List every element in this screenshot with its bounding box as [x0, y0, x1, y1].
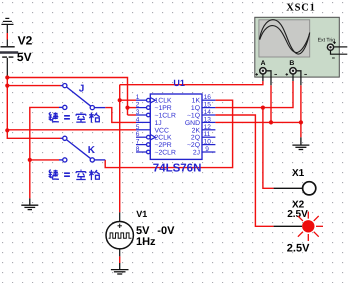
- pin 16 1K: [202, 99, 215, 101]
- svg-text:74LS76N: 74LS76N: [153, 163, 202, 175]
- svg-text:4: 4: [136, 116, 140, 123]
- svg-text:J: J: [79, 84, 85, 95]
- wire VCC: [7, 129, 136, 131]
- scope terminal A: [255, 68, 277, 86]
- clock source V1: [106, 212, 133, 256]
- ground (below V1): [111, 263, 129, 274]
- svg-text:2CLK: 2CLK: [155, 135, 172, 142]
- svg-text:2: 2: [136, 102, 140, 109]
- probe X2 lit: [298, 212, 323, 241]
- wire +5V to K top: [7, 131, 60, 139]
- svg-text:A: A: [261, 60, 266, 67]
- wire scope A minus down: [270, 85, 272, 122]
- wire J common to 1J: [105, 108, 136, 123]
- wire battery down: [6, 78, 8, 131]
- junction clock to 1CLK: [118, 98, 122, 102]
- svg-text:B: B: [289, 60, 294, 67]
- pin 10 ~2Q: [202, 144, 215, 146]
- svg-text:GND: GND: [185, 120, 200, 127]
- svg-text:X1: X1: [292, 168, 305, 179]
- scope sine curve 1: [259, 20, 309, 54]
- wire clock net vertical: [119, 85, 121, 213]
- junction B minus GND row: [299, 120, 303, 124]
- pin 3 ~1CLR: [136, 113, 150, 117]
- wire K common to 1K: [105, 100, 232, 167]
- pin 14 ~1Q: [202, 114, 215, 116]
- svg-text:~2Q: ~2Q: [187, 142, 200, 149]
- ground (top-left, above V2, flipped): [1, 18, 13, 33]
- wire clock to 1CLK: [120, 99, 136, 101]
- ground (below scope B minus): [292, 137, 309, 149]
- svg-text:~2PR: ~2PR: [155, 142, 172, 149]
- scope sine curve 2: [260, 26, 310, 53]
- svg-text:6: 6: [136, 131, 140, 138]
- pin labels right: [185, 98, 201, 157]
- svg-text:1Q: 1Q: [191, 105, 200, 112]
- svg-text:XSC1: XSC1: [286, 2, 315, 13]
- pin 13 GND: [202, 121, 215, 123]
- wire GND row pin13: [215, 121, 301, 123]
- probe X2 lead: [274, 225, 302, 227]
- svg-text:1: 1: [136, 94, 140, 101]
- label J key = space: [49, 112, 100, 123]
- wire +5V to ~1PR/~1CLR: [7, 78, 127, 116]
- wire ~1Q to X2: [215, 115, 273, 226]
- svg-text:15: 15: [204, 102, 212, 109]
- pin numbers right: [204, 94, 212, 153]
- label K key = space: [49, 170, 100, 181]
- pin 4 1J: [136, 121, 150, 123]
- svg-text:2K: 2K: [192, 127, 201, 134]
- svg-text:1J: 1J: [155, 120, 162, 127]
- switch J: [59, 84, 105, 110]
- junction battery VCC branch: [5, 128, 9, 132]
- pin 9 2J: [202, 151, 215, 153]
- ground (below switches): [21, 198, 38, 209]
- junction 1Q X1 branch: [261, 106, 265, 110]
- svg-text:1K: 1K: [192, 98, 201, 105]
- svg-text:16: 16: [204, 94, 212, 101]
- svg-text:9: 9: [205, 146, 209, 153]
- svg-text:~2CLR: ~2CLR: [155, 150, 176, 157]
- ext trig terminal: [327, 41, 347, 58]
- probe X1: [303, 182, 316, 195]
- svg-text:Ext Trig: Ext Trig: [318, 37, 336, 43]
- junction battery J branch: [5, 84, 9, 88]
- junction gnd K branch: [28, 158, 32, 162]
- svg-text:12: 12: [204, 124, 212, 131]
- pin 2 ~1PR: [136, 106, 150, 110]
- wire 1Q to X1: [263, 108, 274, 189]
- pin 11 2Q: [202, 136, 215, 138]
- wire battery top: [6, 33, 8, 40]
- pin 6 2CLK: [136, 135, 155, 140]
- wire clock to scope A: [120, 81, 263, 85]
- pin 12 2K: [202, 129, 215, 131]
- pin 7 ~2PR: [136, 143, 150, 147]
- wire +5V to J top: [7, 85, 60, 87]
- probe X1 lead: [274, 187, 303, 189]
- wire ~1CLR branch: [128, 114, 137, 116]
- svg-text:U1: U1: [173, 78, 185, 88]
- junction ~1PR: [125, 106, 129, 110]
- oscilloscope XSC1 body: [255, 17, 339, 77]
- wire K bottom: [30, 159, 59, 161]
- pin 15 1Q: [202, 107, 215, 109]
- svg-text:2.5V: 2.5V: [287, 209, 308, 220]
- svg-text:1Hz: 1Hz: [136, 236, 156, 248]
- svg-text:~1Q: ~1Q: [187, 113, 200, 120]
- svg-text:3: 3: [136, 109, 140, 116]
- svg-text:V1: V1: [136, 209, 147, 219]
- wire V1 to ground: [119, 256, 121, 263]
- svg-text:~1PR: ~1PR: [155, 105, 172, 112]
- svg-text:14: 14: [204, 109, 212, 116]
- svg-text:2Q: 2Q: [191, 135, 200, 142]
- switch K: [59, 136, 105, 162]
- wire J bottom to ground: [30, 107, 59, 198]
- pin 5 VCC: [136, 129, 150, 131]
- pin numbers left: [136, 94, 140, 153]
- scope terminal B: [286, 68, 307, 86]
- pin labels left: [155, 98, 176, 157]
- pin 8 ~2CLR: [136, 150, 150, 154]
- wire ~1PR branch: [128, 107, 137, 109]
- svg-text:10: 10: [204, 139, 212, 146]
- svg-text:5V: 5V: [17, 50, 32, 64]
- svg-text:5V: 5V: [136, 225, 150, 237]
- junction A minus GND row: [269, 120, 273, 124]
- junction battery top branch: [5, 75, 9, 79]
- svg-text:8: 8: [136, 146, 140, 153]
- svg-text:K: K: [88, 145, 96, 156]
- svg-text:1CLK: 1CLK: [155, 98, 172, 105]
- wire scope B minus to ground: [300, 85, 302, 137]
- op chip 74LS76N box U1: [150, 94, 202, 159]
- svg-text:7: 7: [136, 139, 140, 146]
- svg-text:13: 13: [204, 116, 212, 123]
- svg-text:~1CLR: ~1CLR: [155, 113, 176, 120]
- battery V2: [0, 40, 18, 77]
- svg-text:V2: V2: [18, 34, 33, 48]
- svg-text:11: 11: [204, 131, 211, 138]
- oscilloscope screen: [259, 20, 310, 57]
- svg-text:2J: 2J: [193, 150, 200, 157]
- wire 1Q to scope B: [215, 81, 293, 108]
- pin 1 1CLK: [136, 98, 155, 103]
- svg-text:VCC: VCC: [155, 127, 169, 134]
- svg-text:-0V: -0V: [157, 225, 175, 237]
- svg-text:5: 5: [136, 124, 140, 131]
- svg-text:2.5V: 2.5V: [287, 242, 310, 254]
